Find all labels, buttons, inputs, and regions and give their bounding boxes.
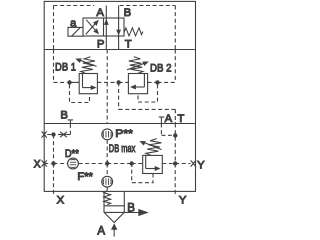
svg-text:B: B bbox=[127, 203, 135, 215]
svg-text:Y: Y bbox=[179, 194, 187, 206]
svg-text:X: X bbox=[34, 158, 41, 170]
svg-text:T: T bbox=[125, 38, 132, 50]
svg-text:a: a bbox=[70, 17, 77, 29]
svg-text:A: A bbox=[96, 7, 104, 19]
svg-text:P**: P** bbox=[115, 128, 133, 140]
svg-text:B: B bbox=[124, 7, 132, 19]
svg-text:B: B bbox=[60, 110, 68, 122]
svg-text:T: T bbox=[177, 113, 184, 125]
svg-text:X: X bbox=[57, 194, 65, 206]
svg-text:DB 2: DB 2 bbox=[150, 62, 172, 74]
svg-text:A: A bbox=[165, 113, 173, 125]
svg-text:DB 1: DB 1 bbox=[55, 61, 76, 73]
svg-text:Y: Y bbox=[197, 160, 205, 172]
svg-text:F**: F** bbox=[77, 171, 93, 183]
svg-text:D**: D** bbox=[65, 148, 79, 160]
svg-text:A: A bbox=[97, 225, 105, 237]
svg-text:P: P bbox=[97, 39, 105, 51]
svg-text:DB max: DB max bbox=[109, 143, 136, 155]
